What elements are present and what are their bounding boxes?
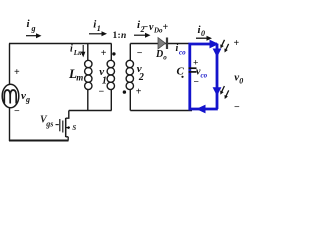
- label v2: [137, 63, 144, 83]
- inductor Lm (magnetizing inductance): [85, 44, 92, 111]
- svg-text:m: m: [76, 73, 83, 83]
- svg-text:+: +: [101, 48, 107, 59]
- label + (vo plus): [234, 38, 240, 49]
- svg-text:−: −: [14, 106, 20, 117]
- label vo: [234, 72, 243, 86]
- label i1 with arrow: [89, 18, 107, 36]
- label Vgs: [40, 115, 53, 129]
- svg-text:n: n: [121, 31, 126, 41]
- label s (switch): [72, 122, 77, 133]
- svg-text:+: +: [136, 87, 142, 98]
- label -vDo+ (diode voltage): [143, 22, 169, 35]
- svg-text:+: +: [163, 22, 169, 33]
- capacitor C plates: [189, 68, 197, 72]
- svg-text:co: co: [179, 49, 186, 57]
- label vg: [21, 90, 30, 104]
- svg-text:1: 1: [97, 24, 101, 33]
- mosfet switch S: [56, 118, 71, 141]
- diode Do: [158, 38, 167, 50]
- blue arrowhead left on bottom bar: [196, 105, 205, 114]
- svg-text:+: +: [234, 38, 240, 49]
- wire bottom rail: [9, 140, 69, 142]
- label iLm with down arrow: [70, 44, 85, 58]
- label ico (capacitor current): [176, 43, 187, 57]
- svg-text:+: +: [14, 67, 20, 78]
- svg-text:g: g: [25, 95, 30, 104]
- svg-text:−: −: [99, 86, 105, 97]
- blue arrowhead down on right bar (lower): [213, 87, 222, 96]
- wire drain lead: [66, 111, 69, 119]
- label vco: [196, 67, 208, 80]
- svg-text:2: 2: [138, 72, 144, 83]
- transformer secondary winding v2: [126, 44, 133, 111]
- wire bottom secondary rail: [130, 110, 192, 112]
- label v1: [99, 66, 107, 86]
- label + (source plus): [14, 67, 20, 78]
- label - (vco minus): [194, 78, 199, 88]
- blue highlighted loop (output current path): [188, 43, 217, 109]
- wire top primary rail: [9, 43, 112, 45]
- svg-text:i: i: [70, 44, 73, 55]
- output connection arrows (upper pair): [220, 40, 228, 53]
- wire top secondary rail: [130, 43, 189, 45]
- label Lm: [68, 66, 83, 83]
- svg-text:D: D: [155, 49, 163, 60]
- svg-text:−: −: [194, 78, 199, 88]
- ac source Vg: [2, 84, 19, 108]
- svg-text:gs: gs: [45, 120, 53, 129]
- label - (vo minus): [234, 102, 240, 113]
- svg-text:s: s: [72, 122, 77, 133]
- polarity dot v2: [123, 90, 126, 93]
- svg-text:0: 0: [239, 77, 243, 86]
- label Do: [155, 49, 167, 61]
- blue arrowhead right on top bar: [210, 40, 219, 49]
- label i2 with arrow: [134, 19, 151, 38]
- label - (v2 minus): [137, 48, 143, 59]
- svg-text:−: −: [234, 102, 240, 113]
- transformer primary winding v1: [107, 44, 114, 111]
- svg-text:0: 0: [201, 29, 205, 38]
- output connection arrows (lower pair): [220, 86, 229, 99]
- label 1:n (turns ratio): [113, 31, 127, 41]
- label ig with arrow: [26, 18, 42, 38]
- blue arrowhead down on right bar (upper): [213, 49, 222, 58]
- label - (v1 minus): [99, 86, 105, 97]
- label + (v2 plus): [136, 87, 142, 98]
- svg-text:1: 1: [102, 75, 107, 86]
- svg-text:−: −: [137, 48, 143, 59]
- label - (source minus): [14, 106, 20, 117]
- svg-text:−: −: [143, 22, 149, 33]
- label io with arrow: [196, 24, 212, 41]
- label + (vco plus): [193, 59, 198, 69]
- polarity dot v1: [112, 52, 115, 55]
- wire left vertical (source branch): [9, 44, 11, 142]
- svg-text:co: co: [201, 72, 208, 80]
- label + (v1 plus): [101, 48, 107, 59]
- svg-text:g: g: [31, 24, 36, 33]
- label C: [177, 66, 185, 78]
- svg-text:C: C: [177, 66, 185, 78]
- wire primary bottom rail: [69, 110, 112, 112]
- svg-text:o: o: [163, 53, 167, 61]
